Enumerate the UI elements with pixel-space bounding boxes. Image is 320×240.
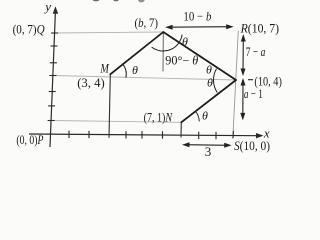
svg-text:S(10, 0): S(10, 0) [234, 138, 270, 153]
svg-text:y: y [43, 0, 51, 14]
svg-text:θ: θ [182, 34, 188, 48]
svg-text:(0, 7)Q: (0, 7)Q [13, 22, 46, 37]
svg-text:θ: θ [132, 63, 138, 77]
svg-text:(0, 0)P: (0, 0)P [16, 132, 43, 147]
svg-text:(7, 1)N: (7, 1)N [144, 109, 174, 124]
svg-text:7 − a: 7 − a [246, 44, 266, 59]
svg-text:3: 3 [205, 144, 212, 159]
svg-text:90°− θ: 90°− θ [165, 53, 198, 67]
svg-text:M: M [100, 62, 110, 76]
svg-text:10 − b: 10 − b [183, 9, 211, 24]
svg-text:θ: θ [202, 109, 208, 123]
svg-text:(3, 4): (3, 4) [77, 75, 105, 90]
svg-text:θ: θ [206, 62, 212, 76]
svg-text:a − 1: a − 1 [244, 86, 263, 101]
svg-text:R(10, 7): R(10, 7) [240, 21, 279, 36]
svg-text:θ: θ [207, 75, 213, 89]
svg-text:x: x [263, 125, 270, 140]
svg-text:(b, 7): (b, 7) [135, 15, 159, 30]
